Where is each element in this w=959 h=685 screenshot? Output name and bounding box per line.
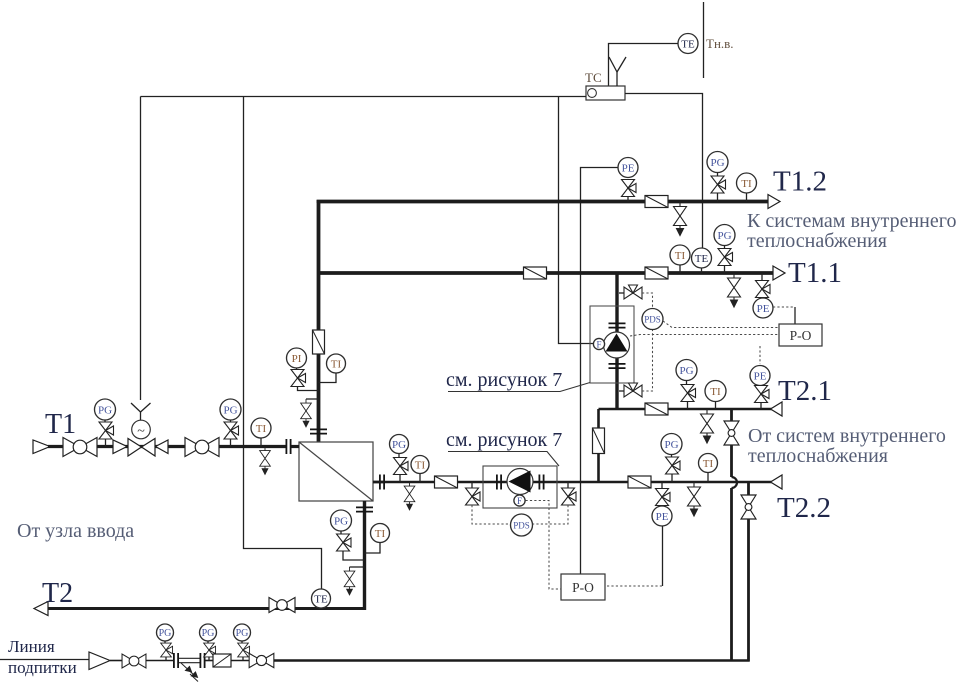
arrow T2 outlet	[34, 602, 48, 616]
drain at HX right	[404, 482, 415, 510]
sensor TE on T2	[312, 589, 331, 608]
svg-text:Тн.в.: Тн.в.	[706, 36, 734, 51]
drain under T2.1	[701, 409, 714, 443]
bypass drop with filter to T2.2	[597, 409, 600, 482]
pipe HX right outlet	[373, 481, 384, 484]
pipe T1.2	[319, 202, 769, 204]
svg-text:PE: PE	[656, 511, 669, 523]
check valve left on T2.2	[435, 476, 458, 488]
valve under PG T2.2	[666, 457, 681, 474]
svg-text:TI: TI	[675, 250, 686, 262]
svg-text:TI: TI	[375, 528, 386, 540]
svg-text:К системам внутреннего: К системам внутреннего	[747, 210, 956, 232]
thermometer TI on T1	[251, 418, 271, 438]
svg-text:PG: PG	[223, 405, 237, 417]
valve top bypass of pump1	[619, 292, 624, 294]
drain under T1.2	[674, 202, 687, 236]
svg-text:PG: PG	[202, 628, 215, 639]
gauge PG2 makeup	[200, 624, 217, 641]
controller TC box	[586, 86, 625, 100]
svg-text:TI: TI	[256, 423, 267, 435]
svg-text:TI: TI	[415, 460, 426, 472]
filter on riser	[313, 330, 325, 354]
svg-text:ТЕ: ТЕ	[314, 594, 328, 606]
thermometer TI at HX right	[411, 456, 429, 474]
gauge PG on T2.1	[676, 360, 697, 381]
gate valve 2 makeup	[249, 653, 274, 667]
thermometer TI on T1.2	[737, 173, 757, 193]
svg-text:Линия: Линия	[8, 637, 55, 656]
arrow makeup	[89, 652, 110, 670]
thermometer TI on T2.1	[705, 381, 726, 402]
svg-text:PG: PG	[159, 628, 172, 639]
wire drop to TE on T2	[244, 97, 322, 590]
svg-text:PG: PG	[710, 157, 724, 169]
pump1 bottom flange	[609, 364, 626, 368]
svg-text:Т2: Т2	[42, 578, 73, 609]
valve under PG HX bottom	[337, 534, 352, 551]
svg-text:ТС: ТС	[585, 70, 602, 85]
check valve right on T2.2	[628, 476, 651, 488]
flange makeup 1	[174, 653, 178, 668]
check valve 1 on T1.1	[524, 267, 547, 279]
valve under PG T1.2	[711, 176, 726, 193]
drain on riser	[306, 398, 319, 400]
thermometer TI on T2.2	[699, 454, 718, 473]
svg-text:Т1.1: Т1.1	[788, 257, 842, 289]
gauge PG on T2.2	[661, 434, 682, 455]
actuator antenna	[131, 403, 151, 420]
svg-text:От узла ввода: От узла ввода	[17, 520, 134, 542]
sensor PE on T2.2	[652, 506, 672, 526]
valve on riser T2.1	[724, 421, 739, 445]
svg-text:PE: PE	[757, 303, 770, 315]
riser from T2.2 down to makeup line	[747, 482, 750, 662]
drain to sewer diagonal	[181, 663, 198, 682]
thermometer TI on T1.1	[670, 245, 690, 265]
drain under T1	[260, 447, 271, 475]
arrow T1.2	[768, 195, 780, 209]
heat exchanger	[299, 442, 373, 501]
pipe T1	[48, 445, 287, 448]
pump2 right flange	[539, 475, 543, 490]
reducer left	[156, 440, 169, 454]
valve under PG T2.1	[681, 385, 696, 402]
svg-text:см. рисунок 7: см. рисунок 7	[446, 429, 562, 451]
svg-text:подпитки: подпитки	[8, 658, 77, 677]
svg-text:теплоснабжения: теплоснабжения	[748, 445, 888, 467]
gauge PG3 makeup	[234, 624, 251, 641]
gauge PG 2 on T1	[220, 399, 241, 420]
filter makeup	[213, 654, 231, 667]
svg-text:TI: TI	[741, 178, 752, 190]
sensor PDS pump2	[511, 514, 533, 536]
sensor PE on T2.1	[750, 366, 770, 386]
drain at HX bottom	[350, 566, 365, 568]
pipe T2	[47, 607, 365, 610]
wire PDS1 to P-O1	[663, 321, 779, 328]
svg-text:Т1: Т1	[45, 409, 76, 440]
reducer right	[113, 440, 127, 454]
note see fig 7 (pump1)	[446, 369, 590, 392]
valve on riser T2.2	[741, 495, 756, 519]
valve left tap pump2	[471, 482, 473, 488]
sensor TE outdoor (Ти.в.)	[678, 34, 698, 54]
svg-text:PE: PE	[622, 163, 635, 175]
flange HX top	[310, 429, 327, 433]
svg-text:Р-О: Р-О	[572, 580, 594, 595]
regulator box P-O1	[779, 324, 822, 346]
drain under T1.1	[728, 273, 741, 307]
pipe T1.1	[319, 271, 774, 275]
antenna on TC	[609, 57, 626, 86]
riser pipe to heat exchanger top	[317, 200, 321, 442]
pump1	[604, 332, 630, 358]
svg-text:PG: PG	[236, 628, 249, 639]
svg-text:PG: PG	[664, 439, 678, 451]
flange HX right	[380, 475, 384, 490]
wire PE T1.2 to regulator P-O2	[581, 168, 619, 575]
check valve on T1.2	[645, 196, 668, 208]
svg-text:PG: PG	[98, 405, 112, 417]
svg-text:F: F	[596, 340, 601, 350]
pipe T2.2	[373, 481, 772, 484]
svg-text:PG: PG	[392, 439, 406, 451]
arrow T1 inlet	[33, 440, 50, 454]
riser from T2.1 down to makeup line	[730, 409, 733, 477]
pump2 flow sensor F	[514, 495, 525, 506]
svg-text:PDS: PDS	[513, 521, 530, 531]
pump1 top flange	[609, 323, 626, 327]
pipe HX bottom drop	[363, 501, 366, 610]
valve under PG2 makeup	[204, 643, 216, 657]
gate valve 1 on T1	[63, 438, 97, 457]
wire TC right to TE on T1.1	[625, 94, 703, 249]
valve under PE T2.1	[755, 386, 770, 403]
pipe makeup thin	[0, 659, 89, 661]
svg-text:PG: PG	[717, 230, 731, 242]
wire pump1 to P-O1	[630, 335, 779, 337]
control valve with actuator	[128, 420, 155, 456]
filter on bypass	[593, 428, 605, 454]
sensor PE on T1.1	[753, 298, 773, 318]
check valve 2 on T1.1	[645, 267, 668, 279]
pump1 flow sensor F	[593, 338, 604, 349]
valve under PG2 T1	[224, 422, 239, 439]
valve under PG HX right	[394, 458, 409, 475]
gauge PI on riser	[287, 348, 307, 368]
svg-text:PG: PG	[334, 516, 348, 528]
svg-text:F: F	[517, 496, 522, 506]
gauge PG at HX bottom	[331, 510, 352, 531]
wire PE T2.2 to P-O2	[662, 526, 664, 586]
boundary line right of TE	[703, 2, 705, 78]
svg-text:PI: PI	[292, 353, 302, 365]
svg-text:PG: PG	[679, 365, 693, 377]
valve under PI	[291, 370, 306, 387]
pump2 enclosure box	[483, 466, 557, 508]
svg-text:Т2.2: Т2.2	[777, 492, 831, 524]
pump2	[507, 469, 533, 495]
gauge PG 1 on T1	[95, 399, 116, 420]
gate valve 1 makeup	[122, 654, 146, 668]
arrow T1.1	[773, 266, 785, 280]
wire TC left bus	[141, 96, 587, 98]
regulator box P-O2	[561, 574, 605, 600]
gauge PG at HX right	[390, 435, 409, 454]
pipe makeup thick to risers	[274, 659, 750, 662]
svg-text:Т2.1: Т2.1	[778, 375, 832, 407]
flange HX bottom	[356, 507, 373, 511]
wire PE to P-O1	[773, 306, 795, 308]
sensor PE on T1.2	[618, 158, 638, 178]
pump2 left flange	[497, 475, 501, 490]
wires PDS2	[472, 505, 511, 524]
wire drop to pump1 F sensor	[559, 97, 594, 344]
note see fig 7 (pump2)	[446, 429, 562, 466]
wire TE to TC box	[609, 44, 679, 87]
flange makeup 2	[200, 653, 204, 668]
svg-text:см. рисунок 7: см. рисунок 7	[446, 369, 562, 391]
thermometer TI at HX bottom	[371, 524, 390, 543]
valve under PG3 makeup	[238, 643, 250, 657]
pump1 enclosure box	[590, 306, 634, 383]
valve under PE T1.2	[622, 180, 637, 197]
svg-text:PDS: PDS	[644, 315, 661, 325]
wire drop to control valve actuator	[140, 97, 142, 401]
gate valve 2 on T1	[185, 438, 219, 457]
svg-text:теплоснабжения: теплоснабжения	[747, 230, 887, 252]
valve under PG T1.1	[718, 249, 733, 266]
svg-text:Т1.2: Т1.2	[773, 166, 827, 198]
svg-text:TI: TI	[710, 386, 721, 398]
svg-text:Р-О: Р-О	[790, 328, 812, 343]
svg-text:TI: TI	[703, 458, 714, 470]
gauge PG on T1.1	[714, 225, 735, 246]
sensor PDS pump1	[642, 309, 663, 330]
svg-text:PE: PE	[754, 371, 767, 383]
sensor TE on T1.1	[692, 248, 712, 268]
wire P-O1 to PE T2.1	[759, 346, 761, 364]
valve under PG1 T1	[99, 422, 114, 439]
svg-text:~: ~	[137, 424, 145, 439]
pipe bridge over T2.2	[732, 477, 738, 488]
check valve on T2.1	[645, 403, 668, 415]
gate valve on T2	[269, 598, 295, 613]
gauge PG1 makeup	[157, 624, 174, 641]
valve under PG1 makeup	[161, 643, 173, 657]
valve right tap pump2	[567, 482, 569, 488]
svg-text:TI: TI	[331, 359, 342, 371]
arrow T2.1	[771, 402, 783, 416]
wire F2 to P-O2	[526, 501, 562, 590]
valve above PE T1.1	[761, 273, 763, 281]
meter section double line	[179, 657, 201, 659]
gauge PG on T1.2	[707, 152, 728, 173]
pump1 riser pipe	[615, 273, 618, 409]
drain under T2.2	[688, 482, 701, 516]
pipe T2.1	[599, 408, 772, 411]
svg-text:От систем внутреннего: От систем внутреннего	[748, 425, 946, 447]
arrow T2.2	[771, 475, 783, 489]
svg-text:ТЕ: ТЕ	[681, 39, 695, 51]
valve above PE T2.2	[661, 482, 663, 489]
thermometer TI on riser	[327, 354, 346, 373]
valve bottom bypass of pump1	[619, 390, 624, 392]
svg-text:ТЕ: ТЕ	[695, 253, 709, 265]
flange T1 to HX	[286, 439, 290, 454]
